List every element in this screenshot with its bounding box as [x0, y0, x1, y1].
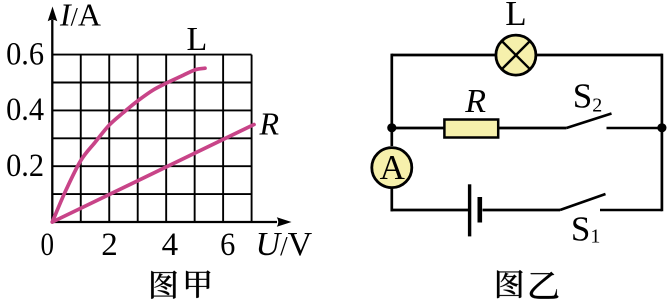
switch S2	[566, 114, 662, 129]
svg-text:U/V: U/V	[256, 226, 313, 263]
resistor R	[444, 120, 498, 138]
left wire upper (top corner to junction)	[390, 54, 393, 146]
circuit: top wire left segment	[392, 54, 495, 57]
caption 图甲	[151, 270, 210, 298]
svg-text:0.2: 0.2	[6, 147, 44, 183]
curve L (lamp I-U curve)	[52, 68, 205, 222]
lamp L	[496, 35, 536, 75]
circuit: top wire right segment	[537, 54, 662, 57]
curve R (resistor I-U line)	[52, 125, 254, 223]
grid	[52, 55, 251, 222]
middle branch wire (resistor to switch S2)	[498, 127, 566, 130]
svg-text:0.4: 0.4	[6, 91, 44, 127]
junction dot right	[657, 123, 666, 132]
left wire lower (ammeter to bottom corner)	[390, 188, 393, 212]
svg-text:R: R	[259, 106, 280, 142]
svg-text:6: 6	[220, 226, 235, 262]
svg-text:0: 0	[41, 225, 55, 262]
middle branch wire (junction to resistor)	[392, 127, 445, 130]
svg-text:I/A: I/A	[59, 0, 101, 32]
switch S1	[560, 194, 662, 210]
bottom wire middle segment (battery to S1)	[483, 209, 561, 212]
ammeter A	[372, 148, 412, 188]
x-axis (U axis)	[51, 217, 291, 226]
right wire (top corner to bottom corner)	[661, 54, 664, 212]
svg-text:L: L	[505, 0, 526, 33]
battery	[470, 184, 480, 236]
svg-text:0.6: 0.6	[6, 35, 44, 71]
junction dot left	[387, 123, 396, 132]
svg-text:2: 2	[101, 227, 118, 263]
svg-text:L: L	[187, 21, 208, 58]
svg-text:R: R	[464, 83, 486, 120]
caption 图乙	[497, 270, 558, 299]
bottom wire left segment (to battery)	[391, 209, 469, 212]
svg-text:4: 4	[162, 227, 179, 263]
y-axis (I axis)	[48, 7, 58, 224]
svg-text:A: A	[380, 148, 406, 187]
